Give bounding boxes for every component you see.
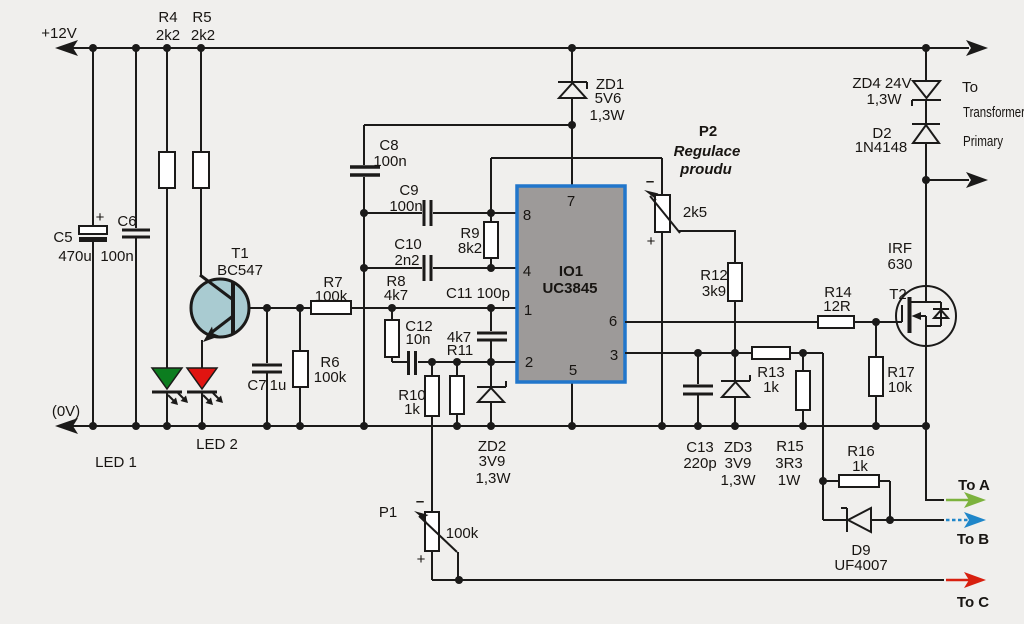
capacitor C12: [407, 351, 410, 375]
zener ZD2: [490, 362, 492, 386]
resistor R8: [391, 308, 393, 320]
wire pin6 net: [625, 321, 818, 323]
capacitor C7: [266, 308, 268, 363]
svg-text:+: +: [417, 551, 426, 568]
resistor R15: [796, 371, 810, 410]
junction dots bottom rail: [89, 422, 930, 430]
svg-text:3V9: 3V9: [479, 453, 506, 470]
wire To A net: [926, 426, 944, 500]
svg-text:R15: R15: [776, 438, 804, 455]
svg-text:C9: C9: [399, 182, 418, 199]
svg-text:3R3: 3R3: [775, 455, 803, 472]
svg-text:2k5: 2k5: [683, 204, 707, 221]
svg-text:2k2: 2k2: [156, 27, 180, 44]
LED 2 red: [187, 368, 217, 389]
svg-text:12R: 12R: [823, 298, 851, 315]
svg-text:LED 2: LED 2: [196, 436, 238, 453]
potentiometer P2: [661, 158, 663, 195]
svg-text:C11 100p: C11 100p: [446, 285, 510, 302]
svg-text:1u: 1u: [270, 377, 287, 394]
svg-text:8: 8: [523, 207, 531, 224]
svg-text:1k: 1k: [852, 458, 868, 475]
wire T1 emitter: [201, 340, 203, 368]
svg-text:C8: C8: [379, 137, 398, 154]
svg-text:100n: 100n: [373, 153, 406, 170]
zener ZD1: [571, 48, 573, 82]
svg-text:To C: To C: [957, 594, 989, 611]
svg-text:+: +: [96, 209, 105, 226]
resistor R14: [818, 316, 854, 328]
svg-text:1N4148: 1N4148: [855, 139, 908, 156]
potentiometer P1: [425, 512, 439, 551]
node +12V left arrow: [55, 40, 78, 56]
svg-text:1,3W: 1,3W: [866, 91, 902, 108]
wire pin8 net: [364, 212, 422, 214]
wire pin3 drop to R16: [822, 353, 824, 520]
svg-text:C10: C10: [394, 236, 422, 253]
capacitor C5: [92, 48, 94, 226]
wire pin2 net: [392, 361, 407, 363]
capacitor C8: [364, 124, 572, 126]
svg-text:4k7: 4k7: [384, 287, 408, 304]
zener ZD4: [925, 48, 927, 81]
resistor R12: [728, 263, 742, 301]
wire pin5: [571, 382, 573, 426]
svg-text:100k: 100k: [314, 369, 347, 386]
resistor R5: [200, 48, 202, 152]
svg-text:1: 1: [524, 302, 532, 319]
svg-text:R5: R5: [192, 9, 211, 26]
svg-text:BC547: BC547: [217, 262, 263, 279]
junction dots middle nets: [263, 121, 576, 366]
svg-text:UC3845: UC3845: [542, 280, 597, 297]
svg-text:R12: R12: [700, 267, 728, 284]
svg-text:IO1: IO1: [559, 263, 583, 280]
svg-text:2: 2: [525, 354, 533, 371]
svg-text:7: 7: [567, 193, 575, 210]
svg-text:470u: 470u: [58, 248, 91, 265]
node To B arrow: [946, 519, 970, 522]
wire pin7: [571, 125, 573, 186]
wire pin1 net: [351, 307, 517, 309]
svg-text:5V6: 5V6: [595, 90, 622, 107]
resistor R7: [311, 301, 351, 314]
wire +12V top rail: [60, 47, 926, 49]
wire T2 source: [925, 326, 927, 426]
capacitor C11: [490, 308, 492, 331]
zener ZD3: [734, 353, 736, 381]
wire To B net: [890, 519, 944, 521]
svg-text:630: 630: [887, 256, 912, 273]
svg-text:C6: C6: [117, 213, 136, 230]
svg-text:C13: C13: [686, 439, 714, 456]
resistor R17: [875, 322, 877, 357]
svg-text:3V9: 3V9: [725, 455, 752, 472]
svg-text:–: –: [416, 493, 424, 510]
svg-text:Transformer: Transformer: [963, 104, 1024, 121]
svg-text:2n2: 2n2: [394, 252, 419, 269]
wire pin4 net: [364, 267, 422, 269]
resistor R9: [490, 158, 492, 222]
svg-text:proudu: proudu: [679, 161, 732, 178]
svg-text:1k: 1k: [404, 401, 420, 418]
svg-text:10k: 10k: [888, 379, 913, 396]
svg-text:3: 3: [610, 347, 618, 364]
resistor R11: [456, 362, 458, 376]
svg-text:1W: 1W: [778, 472, 801, 489]
op-amp U1 IC IO1 UC3845: [517, 186, 625, 382]
resistor R13: [752, 347, 790, 359]
svg-text:C7: C7: [247, 377, 266, 394]
svg-text:100n: 100n: [100, 248, 133, 265]
diode D9 UF4007: [823, 519, 847, 521]
resistor R16: [839, 475, 879, 487]
svg-text:ZD3: ZD3: [724, 439, 752, 456]
svg-text:2k2: 2k2: [191, 27, 215, 44]
wire riser to P2: [491, 157, 662, 159]
capacitor C13: [697, 353, 699, 384]
resistor R4: [166, 48, 168, 152]
svg-text:UF4007: UF4007: [834, 557, 887, 574]
svg-text:Regulace: Regulace: [674, 143, 741, 160]
diode D2 1N4148: [912, 123, 940, 125]
svg-text:+12V: +12V: [41, 25, 76, 42]
junction dots right nets: [455, 176, 930, 584]
resistor R6: [299, 308, 301, 351]
svg-text:4: 4: [523, 263, 531, 280]
node To A arrow: [946, 499, 970, 502]
junction dots top rail: [89, 44, 930, 52]
wire to transformer tap: [926, 179, 969, 181]
wire To C net: [432, 579, 944, 581]
svg-text:100k: 100k: [446, 525, 479, 542]
svg-text:Primary: Primary: [963, 133, 1003, 150]
svg-text:1,3W: 1,3W: [589, 107, 625, 124]
svg-text:–: –: [646, 173, 654, 190]
capacitor C6: [135, 48, 137, 228]
svg-text:C5: C5: [53, 229, 72, 246]
wire P2 wiper to R12: [679, 231, 735, 263]
svg-text:P2: P2: [699, 123, 717, 140]
svg-text:To A: To A: [958, 477, 990, 494]
svg-text:1,3W: 1,3W: [475, 470, 511, 487]
svg-text:IRF: IRF: [888, 240, 912, 257]
svg-text:To B: To B: [957, 531, 989, 548]
svg-text:(0V): (0V): [52, 403, 80, 420]
svg-text:T2: T2: [889, 286, 907, 303]
svg-text:T1: T1: [231, 245, 249, 262]
node 0V left arrow: [55, 418, 78, 434]
svg-text:P1: P1: [379, 504, 397, 521]
transistor T1 BC547: [191, 279, 249, 337]
svg-text:220p: 220p: [683, 455, 716, 472]
svg-text:1k: 1k: [763, 379, 779, 396]
svg-text:R4: R4: [158, 9, 177, 26]
svg-text:ZD4 24V: ZD4 24V: [852, 75, 911, 92]
svg-text:6: 6: [609, 313, 617, 330]
wire top right output: [926, 47, 969, 49]
svg-text:10n: 10n: [405, 331, 430, 348]
LED 1 green: [152, 368, 182, 389]
svg-text:100k: 100k: [315, 288, 348, 305]
wire pin3 net: [625, 352, 752, 354]
svg-text:+: +: [647, 233, 656, 250]
wire C8 column: [363, 177, 365, 426]
wire T2 drain: [925, 180, 927, 302]
svg-text:3k9: 3k9: [702, 283, 726, 300]
capacitor C9: [423, 200, 426, 226]
svg-text:8k2: 8k2: [458, 240, 482, 257]
transistor T2 IRF630: [896, 286, 956, 346]
svg-text:LED 1: LED 1: [95, 454, 137, 471]
svg-text:1,3W: 1,3W: [720, 472, 756, 489]
wire T1 base to R7: [249, 307, 311, 309]
svg-text:5: 5: [569, 362, 577, 379]
wire (0V) bottom rail: [60, 425, 926, 427]
resistor R10: [431, 362, 433, 376]
svg-text:R11: R11: [447, 342, 473, 359]
capacitor C10: [423, 255, 426, 281]
svg-text:To: To: [962, 79, 978, 96]
svg-text:100n: 100n: [389, 198, 422, 215]
node To C arrow: [946, 579, 970, 582]
